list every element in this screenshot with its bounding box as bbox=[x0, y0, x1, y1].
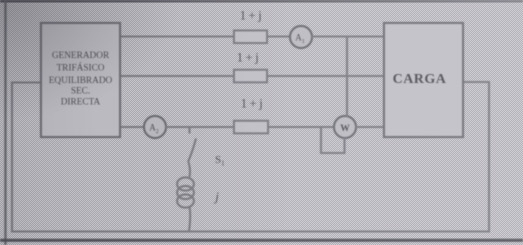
photo frame: top border bbox=[0, 0, 523, 2]
switch label S1 bbox=[215, 154, 225, 168]
wire: wattmeter voltage tap from phase 1 down to W top bbox=[346, 37, 348, 117]
wire: switch to inductor bbox=[189, 162, 191, 177]
ammeter A1 bbox=[290, 26, 312, 48]
wire: inductor to bottom bus bbox=[189, 207, 190, 232]
photo frame: left border bbox=[4, 0, 6, 245]
wire: shunt branch from node to switch bbox=[188, 127, 190, 134]
wattmeter W bbox=[334, 116, 356, 138]
wire: Z1 to ammeter A1 bbox=[267, 35, 291, 37]
wire: phase 2 from generator to impedance Z2 bbox=[120, 75, 234, 77]
value label 1+j of Z3 bbox=[241, 97, 266, 111]
resistor Z3 (1+j) bbox=[234, 121, 268, 134]
inductor j (three scroll loops) bbox=[177, 177, 194, 207]
wire: Z3 to wattmeter bbox=[268, 126, 335, 128]
wire: A1 to load (phase 1) bbox=[312, 35, 385, 37]
inductor value label j bbox=[213, 189, 219, 204]
ammeter A1 label bbox=[295, 33, 305, 46]
photo frame: bottom border bbox=[0, 239, 523, 242]
ammeter A2 bbox=[144, 116, 166, 138]
wire: Z2 to load (phase 2) bbox=[267, 75, 384, 77]
photo vignette top-left bbox=[0, 0, 180, 120]
resistor Z2 (1+j) bbox=[234, 70, 267, 83]
value label 1+j of Z2 bbox=[237, 51, 262, 65]
value label 1+j of Z1 bbox=[240, 9, 265, 23]
switch S1 blade bbox=[188, 139, 196, 163]
wire: phase 1 from generator to impedance Z1 bbox=[120, 35, 234, 37]
wattmeter W label bbox=[340, 124, 350, 134]
load label CARGA bbox=[393, 72, 447, 87]
wire: wattmeter to load (phase 3) bbox=[356, 126, 385, 128]
ammeter A2 label bbox=[149, 123, 159, 136]
wire: wattmeter voltage-coil loop below bbox=[321, 127, 345, 153]
wire: phase 3 generator to ammeter A2 bbox=[120, 126, 145, 128]
wire: neutral return loop (load right side, bottom bus, left riser to generator) bbox=[12, 82, 489, 232]
wire: A2 to impedance Z3 with branch node bbox=[166, 126, 235, 128]
generator box bbox=[41, 23, 120, 137]
load box CARGA bbox=[384, 23, 463, 137]
generator label text bbox=[49, 51, 113, 108]
resistor Z1 (1+j) bbox=[234, 31, 267, 44]
